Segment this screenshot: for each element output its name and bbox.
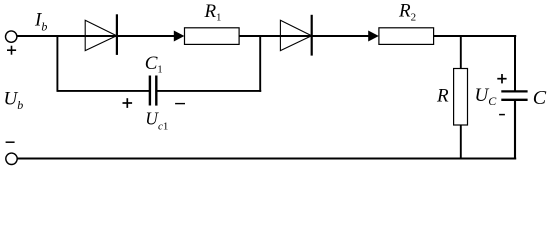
resistor R1 xyxy=(185,28,240,45)
wire: C1 right plate to junction below D2 input xyxy=(157,90,261,92)
capacitor C xyxy=(501,91,527,99)
label + (top input polarity) xyxy=(7,46,16,55)
wire: R bottom to bottom rail xyxy=(460,125,462,160)
wire: input terminal to diode D1 xyxy=(17,35,117,37)
svg-text:C: C xyxy=(533,87,547,109)
wire: to capacitor C1 left plate xyxy=(57,90,149,92)
wire: capacitor C to bottom rail xyxy=(514,100,516,160)
wire: R2 to top-right corner xyxy=(434,35,517,37)
wire: top-right corner down to capacitor C xyxy=(514,35,516,91)
label + (C polarity) xyxy=(497,74,506,83)
svg-text:R: R xyxy=(436,86,449,107)
terminal − (bottom-left) xyxy=(6,153,17,164)
wire with current arrow: D2 to R2 xyxy=(312,31,379,42)
diode D2 xyxy=(280,15,311,56)
diode D1 xyxy=(85,14,117,55)
terminal + (top-left input) xyxy=(6,31,17,42)
resistor R2 xyxy=(379,28,434,45)
wire: R1 to diode D2 xyxy=(239,35,312,37)
resistor R xyxy=(454,69,468,126)
label − (bottom input polarity) xyxy=(6,141,15,143)
label − (C1 polarity) xyxy=(175,103,185,105)
label − (C polarity) xyxy=(499,114,505,116)
wire: junction node down to C1 right side xyxy=(259,35,261,92)
label + (C1 polarity) xyxy=(123,98,133,108)
capacitor C1 xyxy=(150,76,156,106)
wire: junction down to resistor R xyxy=(460,35,462,69)
wire: bottom rail xyxy=(17,157,516,159)
wire with current arrow: D1 to R1 xyxy=(117,31,185,42)
wire: left junction down to C1 branch xyxy=(56,35,58,92)
